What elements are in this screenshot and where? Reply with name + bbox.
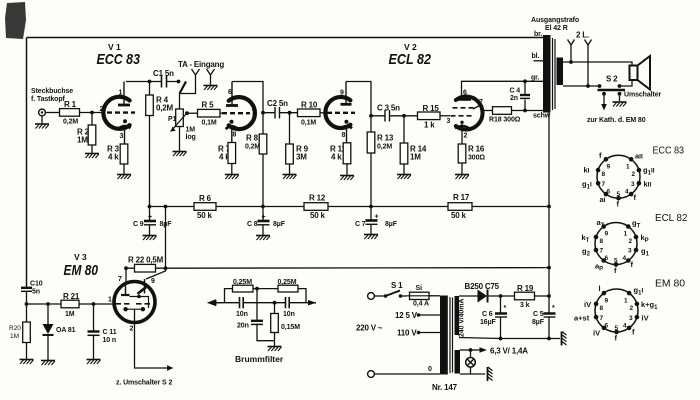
svg-text:0,2M: 0,2M bbox=[245, 144, 260, 151]
svg-text:iV: iV bbox=[584, 300, 591, 309]
node R22 left bbox=[124, 266, 128, 270]
node S2 left bbox=[598, 84, 602, 88]
wire HT secondary to rectifier bbox=[459, 295, 478, 297]
svg-text:9: 9 bbox=[605, 298, 609, 305]
ground R11 bbox=[340, 176, 354, 181]
node bus-R22 feed bbox=[164, 205, 168, 209]
ground PSU main bbox=[562, 332, 567, 346]
svg-text:R 10: R 10 bbox=[301, 101, 318, 110]
svg-text:6: 6 bbox=[605, 323, 609, 330]
node C6 top bbox=[499, 294, 503, 298]
ground heater bbox=[488, 367, 493, 381]
ground jack bbox=[35, 124, 49, 129]
svg-text:g1I: g1I bbox=[634, 286, 644, 297]
transformer Netztrafo heater secondary bbox=[455, 350, 461, 374]
svg-text:C 7: C 7 bbox=[355, 221, 366, 228]
wire R18 to schw tap bbox=[512, 110, 544, 112]
arrow 6,3V bbox=[471, 349, 480, 351]
svg-text:2n: 2n bbox=[510, 95, 518, 102]
node bus-R13-C7 bbox=[369, 205, 373, 209]
svg-text:iV: iV bbox=[642, 314, 649, 323]
node heater lamp bbox=[469, 348, 473, 352]
svg-text:240 V/40mA: 240 V/40mA bbox=[459, 299, 466, 337]
transformer laminations bbox=[553, 38, 556, 110]
capacitor 10n right bbox=[286, 297, 290, 308]
node C10-R20 bbox=[25, 302, 29, 306]
svg-text:C 8: C 8 bbox=[247, 221, 258, 228]
svg-text:1M: 1M bbox=[186, 127, 196, 134]
speaker bbox=[630, 66, 638, 81]
switch S2 contact stubs bbox=[602, 92, 606, 96]
svg-text:6: 6 bbox=[607, 189, 611, 196]
node bus-B+ bbox=[547, 205, 551, 209]
svg-text:5n: 5n bbox=[32, 289, 40, 296]
wire R9 top bbox=[289, 113, 291, 144]
svg-text:R 6: R 6 bbox=[199, 194, 212, 203]
pinout ECC 83 bbox=[582, 145, 684, 209]
svg-text:B250 C75: B250 C75 bbox=[465, 282, 500, 291]
svg-text:7: 7 bbox=[600, 315, 604, 322]
svg-text:*: * bbox=[552, 305, 555, 312]
svg-text:TA - Eingang: TA - Eingang bbox=[178, 60, 224, 69]
wire R14 bottom bbox=[403, 164, 405, 174]
svg-text:0,4 A: 0,4 A bbox=[413, 301, 429, 308]
svg-text:f: f bbox=[634, 193, 637, 202]
svg-text:50 k: 50 k bbox=[310, 211, 326, 220]
svg-text:R 12: R 12 bbox=[309, 194, 326, 203]
svg-text:Brummfilter: Brummfilter bbox=[235, 354, 284, 364]
svg-text:2: 2 bbox=[464, 133, 468, 140]
svg-text:110 V: 110 V bbox=[397, 329, 417, 338]
svg-text:R 17: R 17 bbox=[453, 193, 470, 202]
node P1 wiper bbox=[185, 111, 189, 115]
svg-text:OA 81: OA 81 bbox=[56, 327, 76, 334]
svg-text:iV: iV bbox=[593, 329, 600, 338]
svg-text:5: 5 bbox=[614, 258, 618, 265]
svg-text:R 8: R 8 bbox=[246, 134, 259, 143]
wire R11 bottom bbox=[346, 164, 348, 175]
svg-text:9: 9 bbox=[605, 231, 609, 238]
node C5 bottom bbox=[547, 337, 551, 341]
svg-text:5: 5 bbox=[617, 191, 621, 198]
wire V1a anode to switch bbox=[126, 81, 178, 83]
svg-text:1M: 1M bbox=[77, 136, 88, 145]
svg-text:C 5: C 5 bbox=[533, 311, 544, 318]
svg-text:S 2: S 2 bbox=[606, 75, 618, 84]
switch S2 bar bbox=[598, 89, 626, 91]
wire S1 to fuse bbox=[401, 295, 407, 297]
wire speaker bottom left bbox=[563, 85, 600, 87]
capacitor 20n bbox=[251, 320, 263, 322]
svg-text:f: f bbox=[632, 328, 635, 337]
wire V1b anode to C2 column bbox=[232, 82, 263, 135]
wire EM80 supply y=268 bbox=[166, 267, 550, 270]
wire HT return to ground bbox=[459, 338, 560, 339]
svg-text:Ausgangstrafo: Ausgangstrafo bbox=[531, 17, 579, 24]
wire brummfilter ground stub bbox=[274, 341, 276, 346]
node S2 right bbox=[618, 84, 622, 88]
svg-text:R 5: R 5 bbox=[202, 101, 215, 110]
svg-text:log: log bbox=[186, 134, 196, 141]
svg-text:El 42 R: El 42 R bbox=[545, 25, 568, 32]
svg-text:C 11: C 11 bbox=[103, 329, 117, 336]
wire R19 to B+ node bbox=[535, 295, 550, 297]
tube V1 triode a bbox=[100, 82, 136, 145]
ground OA81 bbox=[41, 361, 55, 366]
input jack bbox=[39, 109, 46, 116]
svg-text:R 16: R 16 bbox=[468, 145, 485, 154]
svg-text:gr.: gr. bbox=[531, 75, 539, 82]
tube V2 pentode bbox=[447, 82, 484, 144]
node bus-R4-C9 bbox=[148, 205, 152, 209]
switch TA arm bbox=[180, 82, 187, 94]
transformer Ausgangstrafo primary core bbox=[543, 35, 551, 113]
svg-text:f: f bbox=[617, 200, 620, 209]
svg-text:1: 1 bbox=[324, 106, 328, 113]
svg-text:aI: aI bbox=[600, 195, 606, 204]
wire speaker bottom right bbox=[620, 80, 633, 86]
brummfilter riser left bbox=[225, 289, 233, 303]
wire S2 to ground bbox=[619, 94, 621, 101]
wire R22 to pin7 bbox=[125, 268, 127, 282]
svg-text:Si: Si bbox=[416, 285, 423, 292]
svg-text:*: * bbox=[504, 305, 507, 312]
svg-text:12 5 V: 12 5 V bbox=[395, 311, 418, 320]
svg-text:7: 7 bbox=[600, 248, 604, 255]
resistor R14 1M bbox=[400, 143, 408, 164]
node R9 tap bbox=[288, 111, 292, 115]
wire heater top bbox=[460, 349, 471, 351]
svg-text:g1II: g1II bbox=[643, 166, 655, 177]
wire R21 line to V3 grid bbox=[27, 303, 115, 305]
svg-text:8: 8 bbox=[342, 132, 346, 139]
wire pentode anode to gr tap bbox=[462, 80, 544, 83]
svg-text:0,15M: 0,15M bbox=[281, 324, 300, 331]
tube V1 triode b bbox=[222, 82, 256, 143]
svg-text:6: 6 bbox=[463, 90, 467, 97]
svg-text:10n: 10n bbox=[236, 311, 248, 318]
svg-text:50 k: 50 k bbox=[197, 211, 213, 220]
svg-text:1 k: 1 k bbox=[424, 121, 435, 130]
svg-text:aT: aT bbox=[597, 218, 605, 229]
svg-text:f. Tastkopf: f. Tastkopf bbox=[31, 96, 66, 103]
pinout EM 80 bbox=[574, 278, 685, 343]
terminal mains bottom bbox=[368, 371, 375, 378]
wire 110V tap bbox=[417, 331, 421, 335]
svg-text:1M: 1M bbox=[410, 153, 421, 162]
tube V2 triode bbox=[324, 82, 355, 143]
svg-text:C10: C10 bbox=[30, 281, 43, 288]
wire P1 to R5 bbox=[187, 112, 198, 114]
node y268-B+ bbox=[547, 266, 551, 270]
ground P1 bbox=[173, 152, 187, 157]
svg-text:8µF: 8µF bbox=[273, 221, 286, 228]
svg-text:ECC 83: ECC 83 bbox=[653, 145, 685, 157]
svg-text:kP: kP bbox=[641, 233, 649, 244]
svg-text:6: 6 bbox=[228, 89, 232, 96]
node C4 bottom bbox=[523, 109, 527, 113]
wire lamp bottom bbox=[460, 367, 485, 374]
svg-text:6,3 V/ 1,4A: 6,3 V/ 1,4A bbox=[490, 347, 528, 356]
svg-text:6: 6 bbox=[605, 255, 609, 262]
svg-text:1: 1 bbox=[624, 298, 628, 305]
svg-text:R 1: R 1 bbox=[64, 100, 77, 109]
wire jack to R1 bbox=[45, 112, 59, 114]
wire R2 bottom bbox=[91, 145, 93, 153]
wire P1 bottom bbox=[179, 127, 181, 152]
svg-text:4: 4 bbox=[625, 189, 629, 196]
resistor R18 300Ω bbox=[493, 107, 512, 115]
svg-text:16µF: 16µF bbox=[480, 319, 497, 326]
svg-text:3 k: 3 k bbox=[520, 302, 530, 309]
svg-text:2: 2 bbox=[630, 305, 634, 312]
ground R16 bbox=[455, 175, 469, 180]
svg-text:g1I: g1I bbox=[582, 180, 592, 191]
svg-text:3: 3 bbox=[629, 315, 633, 322]
svg-text:a+st: a+st bbox=[574, 314, 590, 323]
terminal TA fork 1 bbox=[192, 69, 200, 75]
ground R7 bbox=[225, 175, 239, 180]
svg-text:5: 5 bbox=[615, 325, 619, 332]
svg-text:R18 300Ω: R18 300Ω bbox=[489, 117, 521, 124]
wire R3 bottom bbox=[123, 164, 125, 174]
svg-text:1: 1 bbox=[119, 90, 123, 97]
node bus-R8-C8 bbox=[261, 205, 265, 209]
node C4 top bbox=[523, 79, 527, 83]
svg-text:g2: g2 bbox=[582, 247, 591, 258]
svg-text:2: 2 bbox=[632, 171, 636, 178]
resistor R13 0,2M bbox=[367, 132, 375, 153]
svg-text:1: 1 bbox=[626, 164, 630, 171]
node 2L2 on bottom wire bbox=[586, 84, 590, 88]
svg-text:3: 3 bbox=[628, 248, 632, 255]
svg-text:C 4: C 4 bbox=[510, 88, 521, 95]
wire R22 left leads bbox=[126, 267, 166, 269]
transformer Netztrafo laminations bbox=[450, 297, 453, 373]
svg-text:300Ω: 300Ω bbox=[468, 155, 485, 162]
svg-text:2: 2 bbox=[629, 238, 633, 245]
wire R1 to V1 grid bbox=[80, 112, 106, 114]
node R1-R2 bbox=[90, 111, 94, 115]
node brummfilter mid top bbox=[255, 287, 259, 291]
wire R13 bottom to bus bbox=[370, 153, 372, 207]
svg-text:20n: 20n bbox=[237, 323, 249, 330]
lamp dial bbox=[470, 350, 472, 358]
ground S2 bbox=[613, 102, 627, 107]
svg-text:1: 1 bbox=[108, 297, 112, 304]
svg-text:3: 3 bbox=[447, 118, 451, 125]
node C11 top bbox=[92, 302, 96, 306]
wire R10 to V2 triode grid bbox=[320, 112, 328, 114]
scan blob artifact top-left corner bbox=[5, 2, 26, 39]
svg-text:9: 9 bbox=[340, 89, 344, 96]
svg-text:C 3 5n: C 3 5n bbox=[377, 104, 400, 113]
wire pentode g2 to R18 bbox=[483, 110, 493, 112]
svg-text:4 k: 4 k bbox=[331, 153, 342, 162]
svg-text:7: 7 bbox=[602, 181, 606, 188]
wire B+ column x=549 bbox=[548, 112, 550, 296]
svg-text:schw: schw bbox=[533, 113, 551, 120]
switch S1 bbox=[374, 295, 385, 297]
wire R5 to V1b grid bbox=[220, 112, 226, 114]
svg-text:Nr. 147: Nr. 147 bbox=[432, 383, 458, 392]
ground R3 bbox=[117, 175, 131, 180]
svg-text:7: 7 bbox=[118, 276, 122, 283]
svg-text:0,2M: 0,2M bbox=[63, 119, 78, 126]
svg-text:10 n: 10 n bbox=[103, 337, 117, 344]
node C2 tap bbox=[261, 111, 265, 115]
wire S2 to kath arrow bbox=[603, 94, 605, 104]
wire R4 bottom to bus bbox=[149, 116, 151, 207]
svg-text:f: f bbox=[615, 334, 618, 343]
brummfilter wire row bbox=[216, 302, 316, 304]
svg-text:4: 4 bbox=[623, 255, 627, 262]
svg-text:8µF: 8µF bbox=[532, 319, 545, 326]
svg-text:g1: g1 bbox=[641, 247, 650, 258]
ground C8 bbox=[256, 236, 270, 241]
svg-text:220 V ~: 220 V ~ bbox=[356, 324, 383, 333]
wire HT bus y=206.5 bbox=[150, 206, 550, 208]
terminal mains top bbox=[368, 293, 375, 300]
terminal 2L fork 1 bbox=[568, 40, 575, 63]
svg-text:EM 80: EM 80 bbox=[64, 262, 99, 279]
svg-text:k+g1: k+g1 bbox=[641, 300, 658, 311]
brummfilter middle link bbox=[253, 288, 278, 290]
wire speaker top bbox=[563, 62, 632, 66]
ground C7 bbox=[364, 235, 378, 240]
svg-text:0,2M: 0,2M bbox=[156, 104, 174, 113]
svg-text:8: 8 bbox=[233, 132, 237, 139]
diode OA81 bbox=[47, 304, 49, 324]
capacitor 10n left bbox=[240, 297, 244, 308]
svg-text:C1 5n: C1 5n bbox=[153, 69, 174, 78]
svg-text:EM 80: EM 80 bbox=[655, 278, 685, 290]
terminal 2L fork 2 bbox=[585, 40, 592, 87]
node OA81 top bbox=[46, 302, 50, 306]
wire TA terminal 1 bbox=[180, 75, 196, 94]
wire R20 bottom bbox=[26, 343, 28, 360]
svg-text:1M: 1M bbox=[65, 311, 75, 318]
node R22 right bbox=[164, 266, 168, 270]
ground C9 bbox=[143, 236, 157, 241]
svg-text:1M: 1M bbox=[10, 333, 19, 340]
wire mains bottom to trafo bbox=[374, 373, 440, 375]
node C6 bottom bbox=[499, 337, 503, 341]
ground R20 bbox=[20, 360, 34, 365]
svg-text:aII: aII bbox=[635, 152, 643, 161]
svg-text:br.: br. bbox=[534, 31, 542, 38]
svg-text:3M: 3M bbox=[296, 153, 307, 162]
svg-text:Umschalter: Umschalter bbox=[624, 92, 662, 99]
wire V2 triode anode to C3 column bbox=[346, 82, 371, 133]
svg-text:zur Kath. d. EM 80: zur Kath. d. EM 80 bbox=[587, 117, 646, 124]
svg-text:V 3: V 3 bbox=[74, 252, 87, 262]
svg-text:8: 8 bbox=[600, 238, 604, 245]
svg-text:8: 8 bbox=[600, 305, 604, 312]
svg-text:0,1M: 0,1M bbox=[202, 120, 217, 127]
svg-text:ECL 82: ECL 82 bbox=[655, 212, 688, 224]
svg-text:2: 2 bbox=[100, 106, 104, 113]
node 2L1 on top wire bbox=[569, 60, 573, 64]
wire R4 top bbox=[149, 82, 151, 96]
resistor 0,15M bbox=[274, 303, 276, 341]
wire R15 to pentode grid bbox=[440, 115, 450, 117]
wire R2 top bbox=[91, 113, 93, 126]
node R14 tap bbox=[402, 114, 406, 118]
svg-text:1: 1 bbox=[624, 231, 628, 238]
node 0,15M top bbox=[273, 301, 277, 305]
svg-text:4 k: 4 k bbox=[108, 153, 119, 162]
wire frame left column bbox=[26, 38, 28, 288]
svg-text:9: 9 bbox=[607, 164, 611, 171]
wire R16 bottom bbox=[461, 163, 463, 174]
wire bl stub bbox=[534, 60, 544, 62]
rectifier B250 C75 bbox=[478, 290, 488, 303]
wire frame top B+ rail to trafo br bbox=[27, 37, 544, 39]
svg-text:bl.: bl. bbox=[532, 53, 540, 60]
svg-text:C2 5n: C2 5n bbox=[267, 99, 288, 108]
svg-text:R20: R20 bbox=[9, 325, 21, 332]
wire R7 bottom bbox=[231, 164, 233, 175]
svg-text:10n: 10n bbox=[283, 311, 295, 318]
wire switch to P1 bbox=[179, 94, 181, 110]
wire R14 top bbox=[403, 116, 405, 143]
svg-text:z. Umschalter S 2: z. Umschalter S 2 bbox=[116, 380, 172, 387]
node B+ C5 bbox=[547, 294, 551, 298]
svg-text:7: 7 bbox=[479, 99, 483, 106]
svg-text:ECC 83: ECC 83 bbox=[97, 51, 141, 68]
svg-text:ECL 82: ECL 82 bbox=[389, 51, 432, 68]
svg-text:R 22 0,5M: R 22 0,5M bbox=[128, 256, 164, 265]
wire R8 bottom to bus bbox=[262, 154, 264, 207]
tube V3 EM80 bbox=[114, 279, 155, 333]
ground R9 bbox=[283, 175, 297, 180]
wire R9 bottom bbox=[289, 164, 291, 174]
brummfilter arrow right bbox=[308, 300, 316, 306]
wire jack to ground bbox=[41, 116, 43, 124]
svg-text:kI: kI bbox=[584, 166, 590, 175]
transformer Netztrafo primary core bbox=[440, 296, 448, 375]
wire bus to R22 bbox=[165, 207, 167, 269]
svg-text:3: 3 bbox=[631, 181, 635, 188]
svg-text:0,2M: 0,2M bbox=[377, 144, 392, 151]
terminal TA fork 2 bbox=[207, 69, 215, 85]
node C3 tap bbox=[369, 114, 373, 118]
brummfilter riser right bbox=[298, 289, 306, 303]
svg-text:0,1M: 0,1M bbox=[301, 120, 316, 127]
svg-text:50 k: 50 k bbox=[451, 211, 467, 220]
wire rectifier to R19 bbox=[488, 295, 515, 297]
svg-text:2 L.: 2 L. bbox=[576, 31, 589, 40]
svg-text:2: 2 bbox=[130, 326, 134, 333]
wire R20 top bbox=[26, 304, 28, 322]
svg-text:f: f bbox=[614, 266, 617, 275]
svg-text:0: 0 bbox=[428, 366, 432, 373]
svg-text:aP: aP bbox=[595, 262, 603, 273]
pinout ECL 82 bbox=[582, 212, 688, 275]
svg-text:3: 3 bbox=[120, 133, 124, 140]
ground R14 bbox=[397, 175, 411, 180]
brummfilter arrow left bbox=[209, 300, 223, 305]
svg-text:7: 7 bbox=[252, 110, 256, 117]
svg-text:gT: gT bbox=[632, 219, 641, 230]
resistor R9 3M bbox=[286, 144, 294, 164]
svg-text:8: 8 bbox=[602, 171, 606, 178]
wire 125V tap bbox=[417, 313, 421, 317]
ground TA fork2 bbox=[204, 86, 218, 91]
svg-text:f: f bbox=[599, 151, 602, 160]
ground R2 bbox=[85, 154, 99, 159]
